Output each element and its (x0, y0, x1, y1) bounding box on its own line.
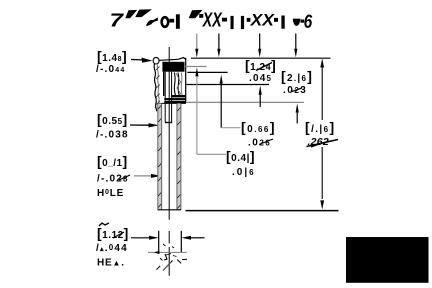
up arrow C (x260) (259, 86, 262, 107)
top cap (160, 58, 186, 61)
inner verticals below head (163, 72, 165, 96)
dim text [1.24]/.045 (245, 57, 276, 84)
ext line y84.5 (187, 84, 270, 86)
leader to top flange (131, 58, 153, 63)
grey ext line (under head) (186, 66, 207, 68)
thread stack (171, 95, 186, 97)
top surface extension line (191, 57, 331, 59)
leader to hex width dim (131, 236, 159, 240)
top-left rolled edge circle (153, 57, 159, 64)
hatch ticks upper-left wall (156, 67, 160, 105)
leader to hole (134, 174, 161, 178)
svg-text:/-.028: /-.028 (97, 174, 129, 185)
svg-text:.0|6: .0|6 (232, 167, 256, 178)
svg-text:XX: XX (202, 10, 223, 32)
up arrow B (x221) black shaft elbow to [0.66] (220, 75, 241, 128)
svg-text:HE▲.: HE▲. (97, 258, 125, 269)
dim text [7.16]/.262 (305, 119, 336, 148)
up arrow A (x197) grey shaft elbow to [0.41] (195, 67, 226, 154)
step line (158, 102, 186, 104)
title leader arrows down (195, 34, 297, 58)
dim text [0.41]/.016 (226, 148, 256, 178)
dim text [0.66]/.026 (241, 119, 276, 149)
degradation slash marks (113, 63, 338, 239)
ext line y72 (187, 71, 227, 73)
svg-text:6: 6 (304, 12, 313, 33)
squiggle over hex label (99, 223, 109, 226)
centerline (168, 47, 170, 220)
grey long ext line y102.4 (186, 101, 304, 103)
black rectangle bottom right (346, 237, 429, 283)
hex scribble sketch (148, 244, 187, 271)
hole bottom (165, 122, 172, 124)
up arrow D (x297) (296, 103, 299, 123)
wiggly slot lines under head (174, 73, 175, 96)
lower tube right wall (177, 103, 181, 209)
svg-text:.026: .026 (248, 138, 271, 149)
hex centerline (168, 231, 170, 244)
svg-text:7: 7 (110, 10, 126, 31)
leader to body wall (130, 123, 159, 127)
svg-text:XX: XX (250, 12, 275, 30)
left wavy slotted edge (154, 64, 157, 112)
lower tube left wall (158, 103, 162, 209)
right edge of upper body (185, 58, 187, 103)
right dim arrow (181, 236, 204, 240)
svg-text:.045: .045 (249, 73, 272, 84)
dim text [2.16]/.023 (281, 68, 313, 96)
overall height dimension x322 (320, 58, 324, 209)
label [0.55] (96, 111, 129, 141)
extension lines (158, 231, 160, 252)
tube bottom edge (158, 209, 182, 211)
svg-text:H0LE: H0LE (97, 188, 124, 199)
svg-text:/-.038: /-.038 (96, 130, 129, 141)
title part number (110, 9, 313, 33)
label [0.71] HOLE (97, 153, 129, 199)
head knurl band (solid) (162, 62, 184, 72)
baseline (186, 210, 339, 212)
label [1.48] (96, 48, 127, 75)
label [1.12] HEX (96, 225, 129, 269)
